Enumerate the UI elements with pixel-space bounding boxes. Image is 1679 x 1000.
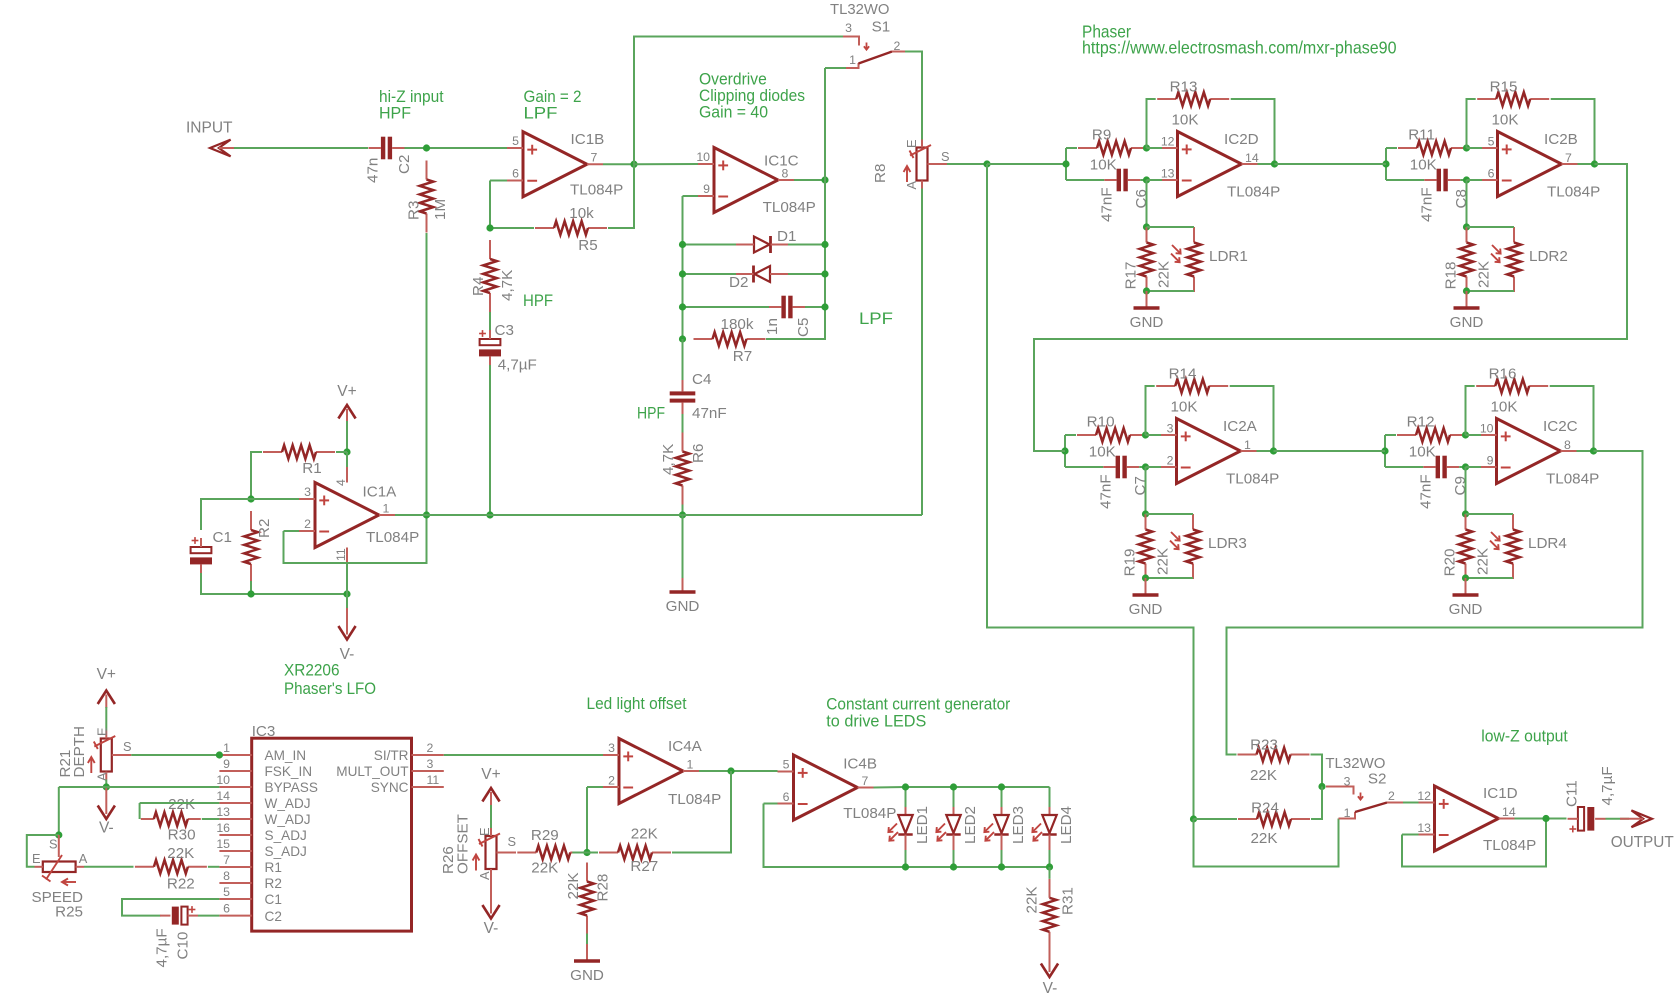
capacitor C5 bbox=[764, 296, 812, 337]
svg-text:R31: R31 bbox=[1060, 887, 1077, 915]
potentiometer R8 bbox=[872, 139, 950, 189]
svg-text:LDR4: LDR4 bbox=[1528, 535, 1567, 552]
wire bbox=[234, 147, 368, 149]
svg-text:TL084P: TL084P bbox=[570, 182, 623, 199]
svg-text:10K: 10K bbox=[1170, 398, 1197, 415]
wire bbox=[825, 67, 846, 69]
wire bbox=[251, 498, 299, 500]
wire bbox=[489, 365, 491, 515]
svg-text:1: 1 bbox=[383, 502, 390, 516]
wire bbox=[805, 306, 825, 308]
wire bypass to S2 pin1 bbox=[1194, 819, 1339, 867]
wire bbox=[1146, 386, 1155, 435]
svg-text:5: 5 bbox=[223, 885, 230, 899]
svg-text:1M: 1M bbox=[432, 199, 449, 220]
svg-text:IC4A: IC4A bbox=[668, 738, 703, 755]
capacitor C3 bbox=[479, 322, 537, 374]
wire bbox=[1147, 179, 1163, 181]
wire bbox=[1258, 163, 1275, 165]
wire bbox=[824, 68, 826, 180]
svg-text:R25: R25 bbox=[55, 903, 83, 920]
svg-text:9: 9 bbox=[703, 182, 710, 196]
svg-text:R29: R29 bbox=[531, 827, 559, 844]
junction bbox=[1143, 223, 1150, 230]
svg-text:D1: D1 bbox=[777, 228, 796, 245]
svg-text:XR2206: XR2206 bbox=[284, 662, 340, 680]
svg-text:TL084P: TL084P bbox=[1227, 183, 1280, 200]
junction bbox=[983, 160, 990, 167]
wire input branch IC2B bbox=[1385, 148, 1387, 180]
svg-text:TL32WO: TL32WO bbox=[830, 1, 890, 18]
svg-text:INPUT: INPUT bbox=[186, 120, 233, 137]
junction bbox=[1143, 144, 1150, 151]
svg-text:GND: GND bbox=[1450, 314, 1484, 331]
junction bbox=[998, 783, 1005, 790]
wire bbox=[1402, 834, 1419, 836]
svg-text:11: 11 bbox=[334, 548, 348, 561]
wire bbox=[1065, 434, 1076, 436]
svg-text:BYPASS: BYPASS bbox=[265, 780, 318, 795]
junction bbox=[423, 511, 430, 518]
svg-text:V+: V+ bbox=[97, 666, 116, 683]
svg-text:10: 10 bbox=[1480, 421, 1494, 435]
wire stage1 to stage2 bbox=[1275, 163, 1387, 165]
resistor R1 bbox=[263, 445, 335, 477]
resistor R16 bbox=[1476, 365, 1548, 415]
wire bbox=[1578, 163, 1595, 165]
svg-text:IC1A: IC1A bbox=[363, 484, 398, 501]
node INPUT port bbox=[186, 120, 242, 157]
svg-text:47nF: 47nF bbox=[1418, 474, 1435, 509]
op-amp IC1B bbox=[507, 131, 623, 199]
svg-text:IC4B: IC4B bbox=[843, 756, 877, 773]
junction bbox=[1463, 287, 1470, 294]
svg-text:R27: R27 bbox=[630, 858, 658, 875]
resistor R3 bbox=[405, 161, 449, 233]
green label hi-Z input HPF bbox=[379, 88, 444, 123]
svg-text:3: 3 bbox=[608, 741, 615, 755]
svg-text:Led light offset: Led light offset bbox=[587, 695, 687, 713]
svg-text:R16: R16 bbox=[1489, 365, 1517, 382]
svg-text:R1: R1 bbox=[265, 860, 282, 875]
wire bbox=[1467, 147, 1472, 149]
svg-text:22K: 22K bbox=[167, 845, 194, 862]
wire bbox=[1386, 179, 1424, 181]
svg-text:10K: 10K bbox=[1409, 443, 1436, 460]
wire bbox=[683, 273, 737, 275]
svg-text:1: 1 bbox=[1344, 806, 1351, 820]
svg-text:R7: R7 bbox=[733, 348, 752, 365]
potentiometer R25 SPEED bbox=[32, 835, 88, 920]
diode D2 bbox=[729, 266, 788, 292]
svg-text:22K: 22K bbox=[1475, 548, 1492, 575]
resistor R24 bbox=[1238, 800, 1310, 848]
resistor R6 bbox=[660, 433, 707, 505]
wire bbox=[905, 52, 922, 140]
svg-text:TL084P: TL084P bbox=[1483, 837, 1536, 854]
wire bbox=[1403, 802, 1419, 804]
resistor R31 bbox=[1024, 879, 1077, 951]
svg-text:S: S bbox=[508, 834, 517, 849]
wire input branch IC2A bbox=[1064, 435, 1066, 467]
wire bbox=[140, 802, 220, 804]
svg-text:2: 2 bbox=[608, 774, 615, 788]
svg-text:LED4: LED4 bbox=[1058, 806, 1075, 844]
wire bbox=[683, 244, 737, 246]
svg-text:S_ADJ: S_ADJ bbox=[265, 828, 307, 843]
green label Phaser URL bbox=[1082, 22, 1397, 58]
wire bbox=[1311, 787, 1322, 820]
wire bbox=[84, 866, 134, 868]
junction bbox=[1143, 287, 1150, 294]
svg-text:S2: S2 bbox=[1368, 771, 1387, 788]
junction bbox=[55, 831, 62, 838]
wire stage3 to stage4 bbox=[1274, 450, 1386, 452]
wire bbox=[1065, 466, 1103, 468]
junction bbox=[486, 511, 493, 518]
wire bbox=[1459, 466, 1465, 468]
junction bbox=[1061, 447, 1068, 454]
wire bbox=[251, 452, 262, 499]
svg-text:IC3: IC3 bbox=[252, 723, 276, 740]
svg-text:14: 14 bbox=[1245, 151, 1259, 165]
junction bbox=[1542, 815, 1549, 822]
svg-text:Overdrive: Overdrive bbox=[699, 71, 767, 89]
junction bbox=[821, 303, 828, 310]
svg-text:to drive LEDS: to drive LEDS bbox=[826, 713, 926, 731]
svg-text:R3: R3 bbox=[405, 201, 422, 220]
svg-text:3: 3 bbox=[427, 757, 434, 771]
power V+ bbox=[337, 383, 356, 423]
svg-text:E: E bbox=[32, 851, 41, 866]
svg-text:10k: 10k bbox=[569, 205, 594, 222]
wire bbox=[953, 787, 955, 807]
wire bbox=[489, 312, 491, 331]
svg-text:LED2: LED2 bbox=[962, 806, 979, 844]
svg-text:OFFSET: OFFSET bbox=[455, 814, 472, 874]
junction bbox=[423, 144, 430, 151]
svg-text:SI/TR: SI/TR bbox=[374, 748, 409, 763]
svg-text:9: 9 bbox=[1487, 453, 1494, 467]
wire bbox=[586, 934, 588, 948]
svg-text:S1: S1 bbox=[872, 19, 891, 36]
svg-text:GND: GND bbox=[666, 598, 700, 615]
svg-text:C4: C4 bbox=[692, 371, 711, 388]
wire bbox=[788, 273, 825, 275]
svg-text:22K: 22K bbox=[1250, 767, 1277, 784]
wire bbox=[346, 421, 348, 452]
svg-text:hi-Z input: hi-Z input bbox=[379, 88, 444, 106]
svg-text:13: 13 bbox=[216, 805, 230, 819]
wire bbox=[1467, 290, 1515, 292]
junction bbox=[1462, 431, 1469, 438]
svg-text:Constant current generator: Constant current generator bbox=[826, 696, 1010, 714]
op-amp IC2A bbox=[1161, 418, 1279, 488]
wire bbox=[764, 803, 778, 805]
svg-text:15: 15 bbox=[216, 837, 230, 851]
ground GND (Vref) bbox=[666, 575, 700, 615]
svg-text:3: 3 bbox=[1344, 775, 1351, 789]
svg-text:7: 7 bbox=[862, 774, 869, 788]
svg-text:IC1D: IC1D bbox=[1483, 785, 1518, 802]
svg-text:22K: 22K bbox=[631, 825, 658, 842]
svg-text:IC2C: IC2C bbox=[1543, 418, 1578, 435]
svg-text:V-: V- bbox=[1043, 980, 1058, 997]
wire bbox=[426, 233, 428, 515]
svg-text:11: 11 bbox=[427, 773, 440, 787]
svg-text:4,7µF: 4,7µF bbox=[1599, 766, 1616, 805]
wire bbox=[1385, 434, 1396, 436]
resistor R11 bbox=[1398, 126, 1470, 173]
photoresistor LDR4 bbox=[1490, 514, 1567, 579]
svg-text:SYNC: SYNC bbox=[371, 780, 409, 795]
junction bbox=[821, 241, 828, 248]
resistor R12 bbox=[1397, 413, 1469, 460]
power V- (R21) bbox=[98, 786, 115, 836]
svg-text:6: 6 bbox=[783, 790, 790, 804]
wire bbox=[788, 244, 825, 246]
junction bbox=[679, 511, 686, 518]
svg-text:R18: R18 bbox=[1443, 262, 1460, 290]
svg-text:MULT_OUT: MULT_OUT bbox=[336, 764, 408, 779]
wire LED top bus bbox=[906, 786, 1050, 788]
svg-text:LDR1: LDR1 bbox=[1209, 248, 1248, 265]
op-amp IC1A bbox=[299, 467, 419, 563]
svg-text:10K: 10K bbox=[1410, 156, 1437, 173]
svg-text:OUTPUT: OUTPUT bbox=[1611, 834, 1675, 851]
svg-text:GND: GND bbox=[1129, 601, 1163, 618]
junction bbox=[727, 767, 734, 774]
svg-text:V+: V+ bbox=[337, 383, 356, 400]
power V+ (R21) bbox=[97, 666, 116, 708]
wire bbox=[683, 195, 699, 197]
wire bbox=[198, 915, 219, 917]
wire bbox=[1147, 226, 1195, 228]
wire bbox=[1466, 513, 1514, 515]
wire bbox=[405, 147, 508, 149]
wire IC3 SI/TR to IC4A bbox=[444, 754, 603, 756]
wire bbox=[794, 179, 825, 181]
wire bbox=[1550, 386, 1594, 451]
svg-text:12: 12 bbox=[1417, 789, 1431, 803]
wire bbox=[336, 451, 347, 453]
op-amp IC1C bbox=[696, 148, 815, 217]
wire bbox=[1146, 434, 1162, 436]
wire bbox=[139, 803, 141, 819]
wire bbox=[1606, 818, 1630, 820]
capacitor C1 bbox=[190, 529, 232, 573]
svg-text:TL084P: TL084P bbox=[1547, 183, 1600, 200]
svg-text:1: 1 bbox=[223, 741, 230, 755]
resistor R29 bbox=[517, 827, 589, 876]
ground GND IC2B bbox=[1450, 291, 1484, 331]
wire bbox=[490, 227, 534, 229]
svg-text:10K: 10K bbox=[1090, 156, 1117, 173]
wire bbox=[1066, 179, 1104, 181]
junction bbox=[216, 751, 223, 758]
resistor R22 bbox=[135, 845, 207, 892]
svg-text:TL084P: TL084P bbox=[1546, 470, 1599, 487]
wire bbox=[208, 866, 220, 868]
wire bbox=[1231, 99, 1275, 164]
wire bbox=[202, 818, 220, 820]
wire bbox=[1227, 736, 1237, 755]
svg-text:R10: R10 bbox=[1087, 413, 1115, 430]
svg-text:R5: R5 bbox=[578, 237, 597, 254]
svg-text:AM_IN: AM_IN bbox=[265, 748, 307, 763]
wire bbox=[1466, 466, 1482, 468]
op-amp IC2D bbox=[1161, 131, 1280, 201]
wire bbox=[905, 787, 907, 807]
wire bbox=[131, 754, 219, 756]
svg-text:R2: R2 bbox=[265, 876, 282, 891]
switch S2 TL32WO bbox=[1325, 755, 1403, 820]
svg-text:https://www.electrosmash.com/m: https://www.electrosmash.com/mxr-phase90 bbox=[1082, 37, 1397, 57]
wire bbox=[105, 780, 107, 788]
junction bbox=[1271, 160, 1278, 167]
junction bbox=[1382, 160, 1389, 167]
wire bbox=[1140, 179, 1146, 181]
svg-text:6: 6 bbox=[1488, 166, 1495, 180]
green label Constant current generator to drive LEDS bbox=[826, 696, 1010, 731]
junction bbox=[821, 176, 828, 183]
resistor R15 bbox=[1477, 78, 1549, 128]
svg-text:22K: 22K bbox=[1250, 830, 1277, 847]
svg-text:A: A bbox=[477, 871, 492, 880]
svg-text:10K: 10K bbox=[1490, 398, 1517, 415]
photoresistor LDR1 bbox=[1171, 227, 1248, 292]
capacitor C6 bbox=[1099, 169, 1151, 222]
wire bbox=[1515, 818, 1567, 820]
svg-text:47nF: 47nF bbox=[1098, 474, 1115, 509]
svg-text:14: 14 bbox=[216, 789, 230, 803]
wire bbox=[1460, 179, 1466, 181]
wire bbox=[1001, 850, 1003, 867]
svg-text:R30: R30 bbox=[168, 827, 196, 844]
svg-text:47nF: 47nF bbox=[1419, 187, 1436, 222]
svg-text:GND: GND bbox=[1130, 314, 1164, 331]
junction bbox=[998, 863, 1005, 870]
wire bbox=[603, 163, 634, 165]
svg-text:2: 2 bbox=[1167, 453, 1174, 467]
svg-text:Clipping diodes: Clipping diodes bbox=[699, 87, 805, 105]
svg-text:1: 1 bbox=[687, 758, 694, 772]
wire bbox=[1577, 450, 1594, 452]
svg-text:13: 13 bbox=[1417, 821, 1431, 835]
svg-text:R2: R2 bbox=[256, 519, 273, 538]
svg-text:R13: R13 bbox=[1170, 78, 1198, 95]
wire bbox=[1466, 434, 1482, 436]
junction bbox=[902, 863, 909, 870]
resistor R2 bbox=[244, 511, 273, 583]
resistor R23 bbox=[1238, 737, 1310, 785]
svg-text:S: S bbox=[941, 149, 950, 164]
wire bbox=[346, 452, 348, 467]
LED LED1 bbox=[888, 806, 931, 850]
svg-text:22K: 22K bbox=[565, 872, 582, 899]
wire bbox=[682, 505, 684, 516]
svg-text:10: 10 bbox=[696, 150, 710, 164]
svg-text:R6: R6 bbox=[690, 444, 707, 463]
wire bbox=[1386, 147, 1397, 149]
wire bbox=[284, 530, 300, 532]
junction bbox=[247, 590, 254, 597]
wire bbox=[1146, 466, 1162, 468]
LED LED3 bbox=[984, 806, 1027, 850]
svg-text:R23: R23 bbox=[1250, 737, 1278, 754]
wire bbox=[1466, 386, 1475, 435]
junction bbox=[1462, 574, 1469, 581]
wire bbox=[1385, 466, 1423, 468]
junction bbox=[1046, 863, 1053, 870]
wire bbox=[682, 196, 684, 339]
wire bbox=[346, 563, 348, 594]
green label XR2206 Phaser's LFO bbox=[284, 662, 376, 699]
svg-text:TL084P: TL084P bbox=[763, 199, 816, 216]
wire bbox=[1147, 99, 1156, 148]
potentiometer R21 DEPTH bbox=[57, 726, 132, 781]
resistor R19 bbox=[1122, 514, 1172, 579]
wire bbox=[586, 787, 588, 853]
wire bbox=[682, 515, 684, 578]
power V- (R31) bbox=[1041, 944, 1058, 997]
wire bbox=[1465, 467, 1467, 514]
svg-text:5: 5 bbox=[512, 134, 519, 148]
svg-text:R20: R20 bbox=[1442, 549, 1459, 577]
photoresistor LDR3 bbox=[1170, 514, 1247, 579]
junction bbox=[679, 335, 686, 342]
wire dry signal to R24 bbox=[987, 164, 1194, 819]
wire stage2 to stage3 bbox=[1034, 164, 1627, 451]
wire input branch IC2C bbox=[1384, 435, 1386, 467]
svg-text:IC2B: IC2B bbox=[1544, 131, 1578, 148]
svg-text:C11: C11 bbox=[1564, 780, 1581, 807]
wire LED bottom bus bbox=[906, 866, 1050, 868]
svg-text:A: A bbox=[904, 181, 919, 190]
wire bbox=[1139, 466, 1145, 468]
svg-text:V-: V- bbox=[340, 646, 355, 663]
resistor R4 bbox=[470, 240, 516, 312]
junction bbox=[1062, 160, 1069, 167]
LED LED4 bbox=[1032, 806, 1075, 850]
wire bbox=[346, 594, 348, 608]
wire bbox=[1049, 787, 1051, 807]
svg-text:12: 12 bbox=[1161, 134, 1175, 148]
wire bbox=[947, 163, 987, 165]
junction bbox=[821, 270, 828, 277]
node OUTPUT port bbox=[1611, 810, 1675, 851]
svg-text:TL084P: TL084P bbox=[843, 805, 896, 822]
wire bbox=[489, 181, 491, 229]
op-amp IC2B bbox=[1482, 131, 1600, 201]
svg-text:Phaser's LFO: Phaser's LFO bbox=[284, 680, 376, 698]
junction bbox=[630, 161, 637, 168]
capacitor C2 bbox=[365, 137, 414, 183]
wire bbox=[284, 515, 427, 563]
wire bbox=[201, 499, 251, 530]
power V+ (R26) bbox=[481, 766, 500, 806]
wire bbox=[1467, 147, 1483, 149]
svg-text:1: 1 bbox=[849, 53, 856, 67]
svg-text:IC2D: IC2D bbox=[1224, 131, 1259, 148]
resistor R10 bbox=[1077, 413, 1149, 460]
junction bbox=[247, 495, 254, 502]
svg-text:22K: 22K bbox=[1476, 261, 1493, 288]
svg-text:4,7K: 4,7K bbox=[660, 444, 677, 475]
LED LED2 bbox=[936, 806, 979, 850]
svg-text:W_ADJ: W_ADJ bbox=[265, 812, 311, 827]
svg-text:22K: 22K bbox=[531, 859, 558, 876]
